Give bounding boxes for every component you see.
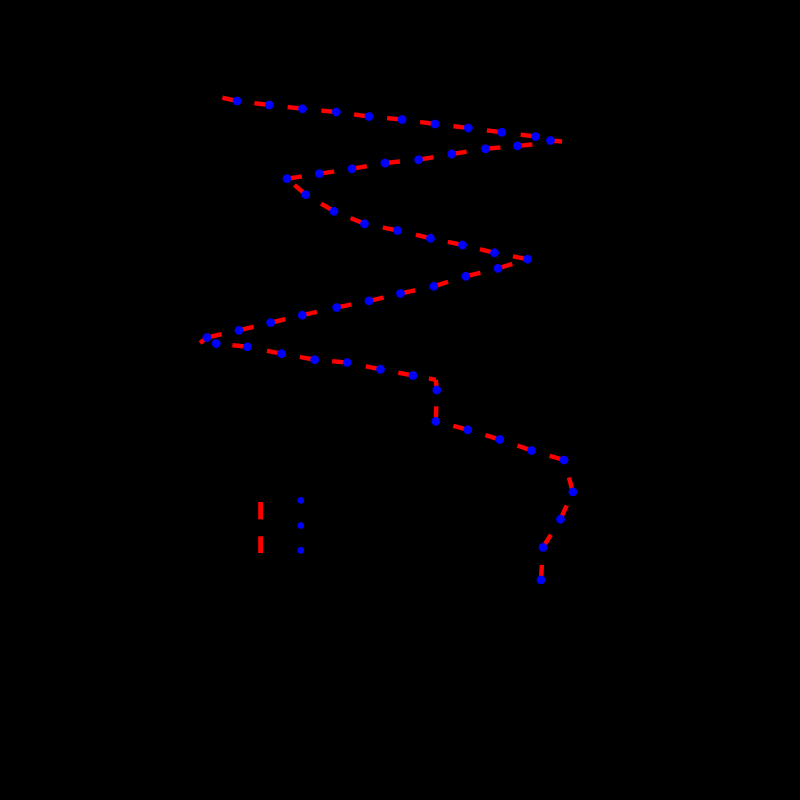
legend: blue dotted markers sample — [297, 497, 304, 554]
legend: red dashed vertical line sample — [258, 502, 263, 553]
blue data point markers — [203, 97, 578, 585]
red dashed connecting line of data series — [200, 98, 573, 579]
